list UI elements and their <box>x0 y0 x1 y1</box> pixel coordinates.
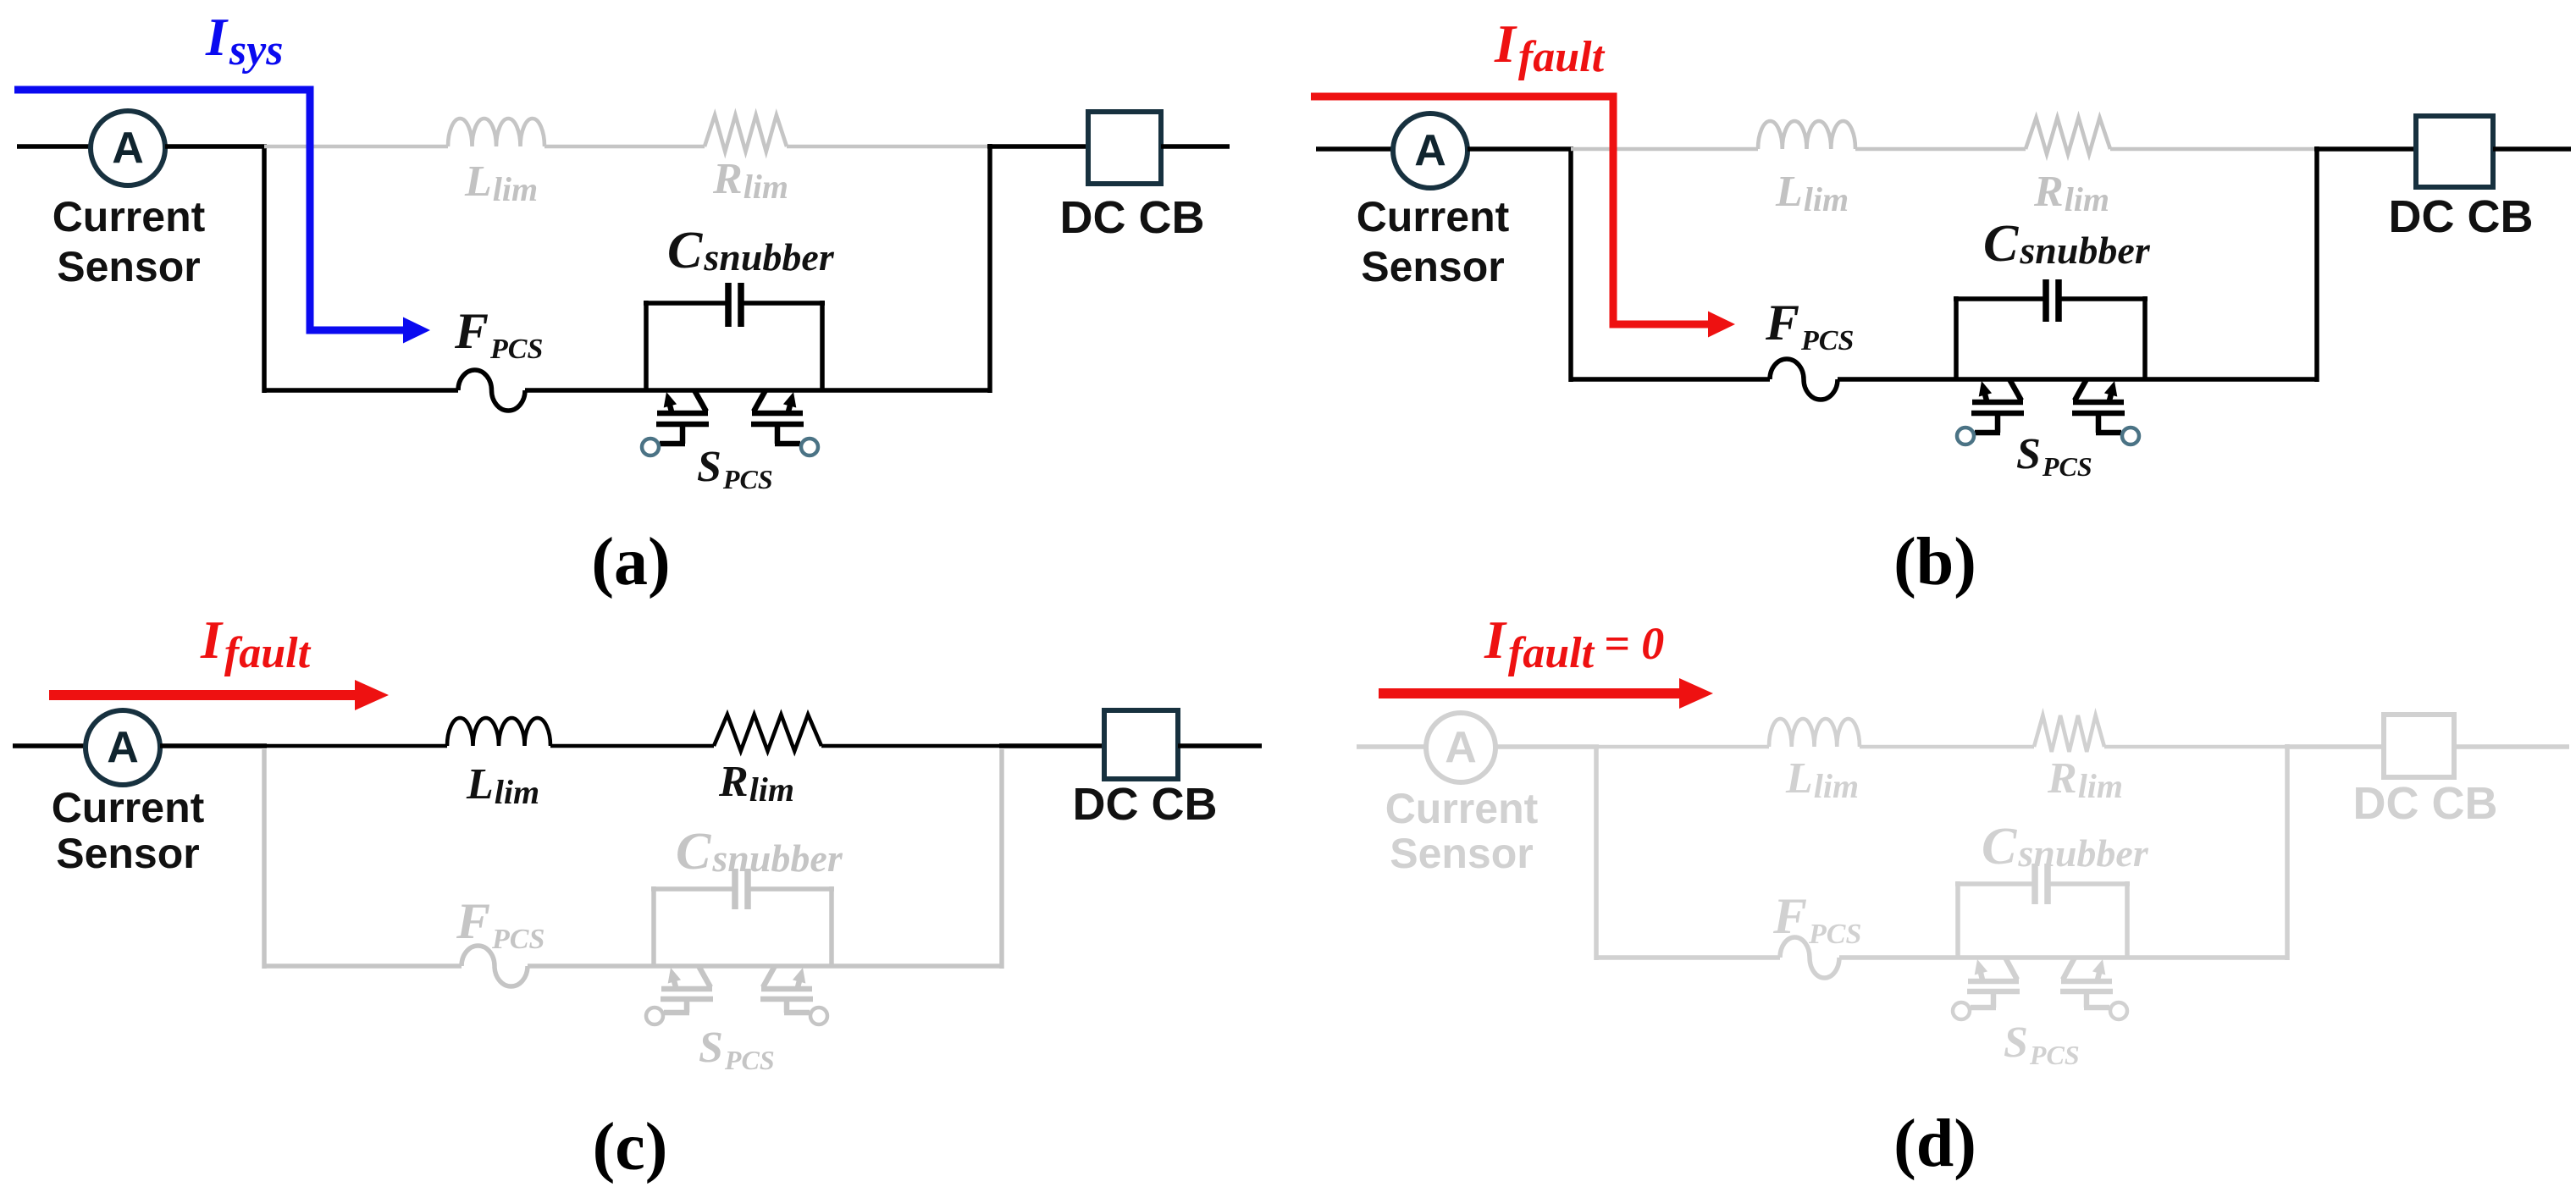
wire right junction vertical (a) <box>987 144 992 393</box>
transistor Qc2 (IGBT right of S_PCS) <box>760 966 813 1013</box>
svg-text:= 0: = 0 <box>1604 618 1664 669</box>
gate terminal circle of Qd2 <box>2110 1002 2127 1019</box>
inductor L_lim (c) <box>447 718 550 746</box>
wire current-arrow I path (a) <box>14 90 430 344</box>
wire main left segment (c) <box>13 743 86 748</box>
fuse F_PCS (c) <box>462 946 528 986</box>
wire snubber left leg (b) <box>1954 296 1959 379</box>
transistor Qb1 (IGBT left of S_PCS) <box>1971 379 2024 433</box>
svg-text:(a): (a) <box>591 525 670 599</box>
wire bottom branch middle segment (c) <box>528 963 1002 969</box>
wire snubber top-right segment (a) <box>741 301 825 306</box>
wire right of R_lim to right junction (c) <box>821 744 1002 748</box>
transistor Qc1 (IGBT left of S_PCS) <box>661 966 713 1013</box>
label Current Sensor (a) <box>53 193 206 290</box>
wire right of DC CB (d) <box>2454 744 2569 749</box>
wire from right junction to DC CB (b) <box>2314 146 2416 152</box>
svg-text:Sensor: Sensor <box>56 830 200 877</box>
current sensor A (a) <box>91 111 165 185</box>
label Current Sensor (d) <box>1385 785 1539 877</box>
svg-text:Sensor: Sensor <box>1361 243 1505 290</box>
svg-text:DC CB: DC CB <box>1060 192 1205 243</box>
gate terminal circle of Qd1 <box>1953 1002 1970 1019</box>
circuit breaker DC CB box (a) <box>1088 112 1161 184</box>
wire current-arrow I path (d) <box>1379 678 1713 709</box>
svg-text:Current: Current <box>52 784 205 831</box>
circuit breaker DC CB box (b) <box>2416 116 2493 187</box>
capacitor C_snubber plates (a) <box>728 283 741 327</box>
svg-text:A: A <box>1445 723 1477 772</box>
current sensor A (d) <box>1426 713 1495 782</box>
capacitor C_snubber plates (b) <box>2046 279 2059 322</box>
capacitor C_snubber plates (d) <box>2035 864 2048 904</box>
gate terminal circle of Qc1 <box>646 1008 663 1024</box>
svg-text:DC CB: DC CB <box>2389 191 2534 242</box>
svg-text:Sensor: Sensor <box>1390 830 1534 877</box>
wire between L_lim and R_lim (c) <box>550 744 714 748</box>
svg-text:Current: Current <box>1357 193 1510 240</box>
fuse F_PCS (b) <box>1770 359 1838 400</box>
gate terminal circle of Qc2 <box>810 1008 827 1024</box>
wire snubber left leg (d) <box>1955 881 1960 958</box>
wire from right junction to DC CB (d) <box>2285 744 2384 749</box>
wire bottom branch middle segment (b) <box>1838 377 2317 382</box>
svg-text:A: A <box>107 723 139 772</box>
svg-text:(d): (d) <box>1893 1107 1976 1181</box>
gate terminal circle of Qa2 <box>801 439 818 455</box>
wire bottom branch middle segment (d) <box>1839 955 2287 960</box>
wire from sensor to left junction (a) <box>165 144 267 149</box>
wire snubber top-left segment (a) <box>644 301 728 306</box>
label Current Sensor (b) <box>1357 193 1510 290</box>
resistor R_lim (a) <box>705 115 787 152</box>
wire snubber right leg (b) <box>2142 296 2148 379</box>
resistor R_lim (b) <box>2026 118 2110 154</box>
wire main left segment (b) <box>1316 146 1393 152</box>
wire left junction vertical (b) <box>1568 149 1573 382</box>
wire between L_lim and R_lim (b) <box>1855 147 2026 152</box>
inductor L_lim (d) <box>1769 719 1860 747</box>
wire current-arrow I path (b) <box>1311 97 1735 338</box>
wire snubber top-left segment (b) <box>1954 296 2046 301</box>
gate terminal circle of Qb1 <box>1957 428 1974 444</box>
transistor Qb2 (IGBT right of S_PCS) <box>2072 379 2125 433</box>
transistor Qd1 (IGBT left of S_PCS) <box>1967 958 2020 1008</box>
current sensor A (c) <box>86 710 160 785</box>
svg-text:DC CB: DC CB <box>1073 779 1218 830</box>
wire between L_lim and R_lim (a) <box>544 145 705 149</box>
wire top branch left of L_lim (d) <box>1596 745 1769 749</box>
wire snubber top-right segment (b) <box>2059 296 2148 301</box>
resistor R_lim (d) <box>2034 715 2104 752</box>
wire snubber top-right segment (d) <box>2048 881 2130 886</box>
svg-text:Current: Current <box>1385 785 1539 832</box>
wire from sensor to left junction (c) <box>160 743 267 748</box>
wire bottom branch left segment (b) <box>1571 377 1770 382</box>
wire right of R_lim to right junction (d) <box>2104 745 2287 749</box>
wire right junction vertical (d) <box>2285 744 2290 960</box>
resistor R_lim (c) <box>714 715 821 751</box>
wire snubber top-right segment (c) <box>748 886 834 892</box>
wire top branch left of L_lim (a) <box>264 145 448 149</box>
svg-text:A: A <box>1414 126 1446 175</box>
wire right of DC CB (b) <box>2493 146 2571 152</box>
wire top branch left of L_lim (c) <box>264 744 447 748</box>
wire right of R_lim to right junction (a) <box>787 145 990 149</box>
wire main left segment (d) <box>1357 744 1426 749</box>
wire right junction vertical (c) <box>999 749 1004 969</box>
svg-text:Sensor: Sensor <box>57 243 201 290</box>
wire between L_lim and R_lim (d) <box>1860 745 2034 749</box>
wire left junction vertical (d) <box>1594 747 1599 960</box>
inductor L_lim (b) <box>1758 121 1855 149</box>
wire from right junction to DC CB (c) <box>999 743 1104 748</box>
circuit breaker DC CB box (d) <box>2384 715 2454 777</box>
wire right of DC CB (a) <box>1161 144 1230 149</box>
wire snubber top-left segment (d) <box>1955 881 2035 886</box>
transistor Qa2 (IGBT right of S_PCS) <box>751 390 804 444</box>
svg-text:(b): (b) <box>1893 525 1976 599</box>
gate terminal circle of Qb2 <box>2122 428 2139 444</box>
wire snubber top-left segment (c) <box>651 886 735 892</box>
svg-text:A: A <box>112 124 144 173</box>
fuse F_PCS (a) <box>458 370 525 411</box>
wire right of R_lim to right junction (b) <box>2110 147 2317 152</box>
wire from right junction to DC CB (a) <box>987 144 1088 149</box>
transistor Qa1 (IGBT left of S_PCS) <box>656 390 709 444</box>
fuse F_PCS (d) <box>1780 937 1839 978</box>
wire top branch left of L_lim (b) <box>1571 147 1758 152</box>
wire left junction vertical (a) <box>262 146 267 393</box>
wire bottom branch left segment (a) <box>264 388 458 393</box>
wire from sensor to left junction (d) <box>1495 744 1599 749</box>
capacitor C_snubber plates (c) <box>735 869 748 909</box>
wire bottom branch middle segment (a) <box>525 388 990 393</box>
svg-text:DC CB: DC CB <box>2353 778 2498 829</box>
wire left junction vertical (c) <box>262 749 267 969</box>
label Current Sensor (c) <box>52 784 205 877</box>
current sensor A (b) <box>1393 113 1468 188</box>
svg-text:(c): (c) <box>593 1110 668 1184</box>
wire main left segment (a) <box>17 144 91 149</box>
wire snubber left leg (a) <box>644 301 649 390</box>
wire bottom branch left segment (c) <box>264 963 462 969</box>
wire bottom branch left segment (d) <box>1596 955 1780 960</box>
wire right junction vertical (b) <box>2314 146 2319 382</box>
wire snubber right leg (a) <box>820 301 825 390</box>
wire snubber left leg (c) <box>651 886 656 966</box>
wire from sensor to left junction (b) <box>1468 146 1573 152</box>
inductor L_lim (a) <box>448 119 544 146</box>
wire right of DC CB (c) <box>1178 743 1262 748</box>
wire snubber right leg (d) <box>2125 881 2130 958</box>
transistor Qd2 (IGBT right of S_PCS) <box>2060 958 2113 1008</box>
wire current-arrow I path (c) <box>49 680 389 710</box>
wire snubber right leg (c) <box>829 886 834 966</box>
svg-text:Current: Current <box>53 193 206 240</box>
circuit breaker DC CB box (c) <box>1104 710 1178 779</box>
gate terminal circle of Qa1 <box>642 439 659 455</box>
